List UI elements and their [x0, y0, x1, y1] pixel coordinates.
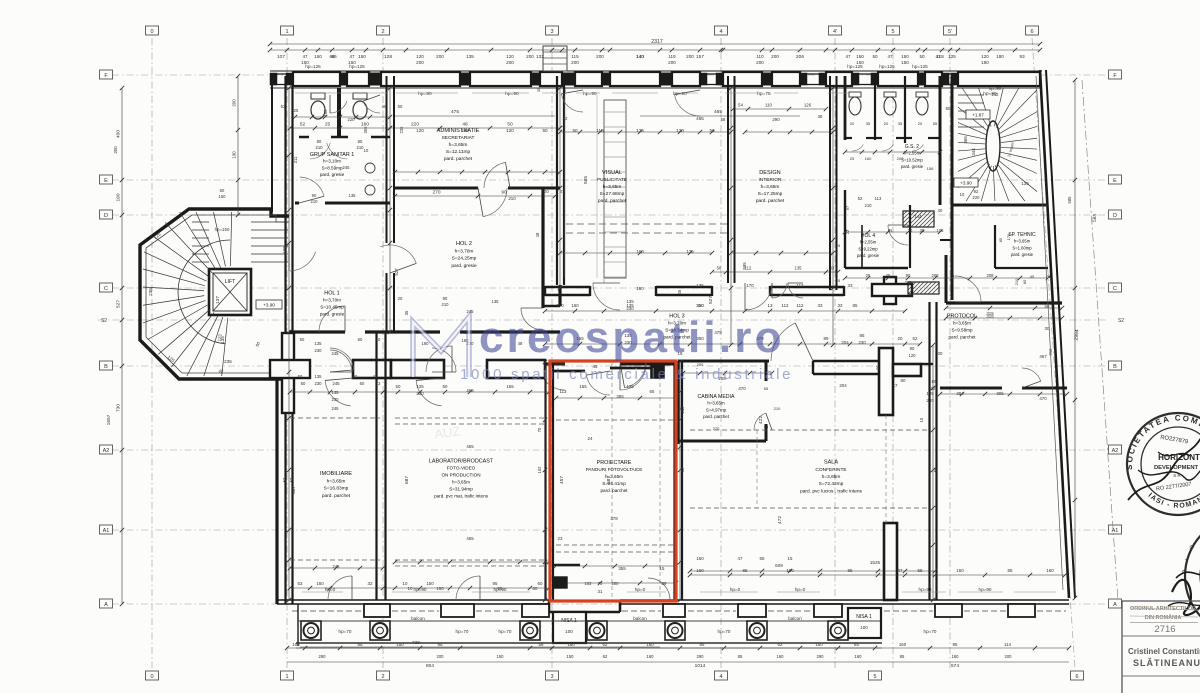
svg-text:h=3,70m: h=3,70m	[323, 298, 341, 303]
svg-text:hp=125: hp=125	[879, 64, 895, 69]
svg-text:120: 120	[981, 54, 989, 59]
svg-text:52: 52	[913, 336, 918, 341]
svg-text:90: 90	[443, 296, 448, 301]
svg-text:206: 206	[796, 54, 804, 60]
svg-text:235: 235	[224, 359, 232, 364]
svg-text:135: 135	[696, 283, 704, 288]
svg-text:95: 95	[438, 642, 443, 647]
svg-text:50: 50	[542, 128, 548, 133]
svg-text:55: 55	[933, 467, 938, 472]
svg-text:25: 25	[836, 243, 841, 248]
svg-text:160: 160	[777, 654, 785, 659]
svg-text:115: 115	[668, 54, 676, 59]
svg-text:S=4,97mp: S=4,97mp	[706, 407, 727, 412]
svg-text:S2: S2	[1118, 318, 1124, 324]
svg-text:SP. TEHNIC: SP. TEHNIC	[1008, 232, 1036, 238]
svg-text:hp=0: hp=0	[635, 587, 646, 592]
svg-text:135: 135	[332, 390, 340, 395]
svg-text:180: 180	[981, 60, 989, 65]
svg-text:179: 179	[1006, 233, 1011, 240]
svg-text:200: 200	[526, 54, 534, 59]
svg-text:200: 200	[571, 60, 579, 65]
svg-text:pard. parchet: pard. parchet	[756, 198, 785, 204]
svg-text:h=3,65m: h=3,65m	[953, 321, 971, 326]
svg-text:85: 85	[854, 642, 859, 647]
svg-text:25: 25	[325, 122, 331, 128]
svg-text:47: 47	[302, 54, 308, 59]
svg-text:150: 150	[396, 642, 404, 647]
svg-text:47: 47	[845, 54, 851, 59]
svg-text:150: 150	[497, 654, 505, 659]
svg-text:92: 92	[974, 189, 979, 194]
svg-text:55: 55	[760, 556, 765, 561]
svg-text:h=3,65m: h=3,65m	[761, 184, 780, 190]
svg-text:6: 6	[1030, 29, 1033, 35]
svg-text:10: 10	[960, 192, 965, 197]
svg-text:160: 160	[952, 654, 960, 659]
svg-text:25: 25	[836, 278, 841, 283]
svg-text:210: 210	[865, 203, 873, 208]
svg-text:35: 35	[866, 121, 871, 126]
svg-text:pard. pvc mat, trafic intens: pard. pvc mat, trafic intens	[434, 494, 489, 499]
svg-text:PROIECTARE: PROIECTARE	[597, 460, 632, 466]
svg-text:112: 112	[782, 303, 790, 308]
svg-text:80: 80	[901, 378, 906, 383]
svg-text:160: 160	[956, 568, 964, 573]
svg-text:128: 128	[384, 54, 392, 60]
svg-text:112: 112	[797, 303, 805, 308]
svg-text:150: 150	[348, 60, 356, 65]
svg-text:SLĂTINEANU: SLĂTINEANU	[1133, 658, 1200, 668]
svg-text:65: 65	[764, 386, 769, 391]
svg-text:160: 160	[646, 642, 654, 647]
svg-text:h=3,65m: h=3,65m	[452, 480, 470, 485]
svg-text:157: 157	[696, 54, 704, 60]
svg-text:48: 48	[382, 104, 387, 109]
svg-text:1657: 1657	[106, 414, 112, 425]
svg-text:210: 210	[316, 145, 324, 150]
svg-text:804: 804	[426, 663, 434, 669]
svg-text:465: 465	[714, 109, 722, 115]
svg-text:135: 135	[466, 54, 474, 59]
svg-text:1525: 1525	[870, 560, 881, 565]
svg-text:290: 290	[817, 654, 825, 659]
svg-text:S=16.83mp: S=16.83mp	[324, 486, 349, 492]
svg-text:210: 210	[311, 199, 319, 204]
svg-text:60: 60	[358, 337, 363, 342]
svg-text:h=3,65m: h=3,65m	[327, 478, 346, 484]
svg-text:200: 200	[897, 156, 904, 161]
svg-text:60: 60	[533, 586, 538, 591]
svg-text:355: 355	[618, 566, 626, 571]
svg-text:48: 48	[462, 122, 468, 128]
svg-text:54: 54	[738, 103, 743, 108]
svg-text:33: 33	[818, 303, 823, 308]
svg-text:2994: 2994	[1074, 329, 1081, 341]
svg-text:S=9,22mp: S=9,22mp	[858, 246, 878, 251]
svg-text:A1: A1	[1112, 528, 1119, 534]
svg-text:Cristinel Constantin: Cristinel Constantin	[1128, 647, 1200, 656]
svg-text:100: 100	[860, 625, 868, 630]
svg-text:35: 35	[536, 87, 541, 92]
svg-text:58: 58	[539, 642, 544, 647]
svg-text:115: 115	[571, 54, 579, 59]
svg-text:472: 472	[777, 516, 783, 524]
svg-text:50: 50	[396, 384, 401, 389]
svg-text:hp=90: hp=90	[418, 91, 432, 97]
svg-text:160: 160	[855, 654, 863, 659]
svg-text:200: 200	[416, 60, 424, 65]
svg-text:1000 spatii comerciale & indus: 1000 spatii comerciale & industriale	[460, 366, 793, 383]
svg-text:23: 23	[558, 536, 563, 541]
svg-text:60: 60	[538, 581, 543, 586]
svg-text:40: 40	[376, 337, 381, 342]
svg-text:A2: A2	[1112, 448, 1119, 454]
svg-text:50: 50	[872, 54, 878, 59]
svg-text:150: 150	[901, 60, 909, 65]
svg-text:200: 200	[113, 146, 118, 154]
svg-text:210: 210	[442, 302, 450, 307]
svg-text:DEVELOPMENT: DEVELOPMENT	[1154, 465, 1199, 471]
svg-text:47: 47	[893, 383, 898, 388]
svg-text:20: 20	[918, 121, 923, 126]
svg-text:120: 120	[506, 54, 514, 59]
svg-text:85: 85	[738, 654, 743, 659]
svg-text:hp=70: hp=70	[456, 629, 469, 634]
svg-text:35: 35	[898, 121, 903, 126]
svg-text:85: 85	[853, 303, 858, 308]
svg-text:200: 200	[686, 54, 694, 59]
svg-text:ADMINISTRATIE: ADMINISTRATIE	[437, 128, 480, 134]
svg-text:200: 200	[771, 54, 779, 59]
svg-text:150: 150	[856, 54, 864, 59]
svg-text:230: 230	[315, 348, 323, 353]
svg-text:33: 33	[830, 266, 835, 271]
svg-text:FOTO-VIDEO: FOTO-VIDEO	[447, 466, 476, 471]
svg-text:135: 135	[492, 299, 500, 304]
svg-text:85: 85	[900, 654, 905, 659]
svg-text:hp=90: hp=90	[505, 91, 519, 97]
svg-text:h=3,65m: h=3,65m	[449, 142, 468, 148]
svg-text:687: 687	[606, 476, 612, 484]
svg-text:467: 467	[1039, 354, 1047, 359]
svg-text:730: 730	[116, 404, 122, 412]
svg-text:112: 112	[797, 283, 805, 288]
svg-text:220: 220	[411, 122, 419, 128]
svg-text:190: 190	[232, 151, 237, 159]
svg-text:60: 60	[360, 381, 365, 386]
svg-text:160: 160	[556, 303, 564, 308]
svg-text:VISUAL: VISUAL	[602, 170, 622, 176]
svg-text:h=3,65m: h=3,65m	[1014, 239, 1031, 244]
svg-text:126: 126	[804, 103, 812, 108]
svg-text:200: 200	[437, 654, 445, 659]
svg-text:80: 80	[317, 139, 322, 144]
svg-text:350: 350	[696, 303, 704, 308]
svg-text:585: 585	[1067, 196, 1072, 204]
svg-text:HOL 1: HOL 1	[324, 291, 339, 297]
svg-text:pard. gresie: pard. gresie	[320, 312, 345, 317]
svg-text:S=72.42mp: S=72.42mp	[819, 481, 844, 487]
svg-text:balcon: balcon	[411, 616, 425, 621]
svg-text:ON PRODUCTION: ON PRODUCTION	[441, 473, 480, 478]
svg-text:60: 60	[220, 188, 225, 193]
svg-text:160: 160	[696, 568, 704, 573]
svg-text:125: 125	[948, 54, 956, 59]
svg-text:160: 160	[422, 341, 430, 346]
svg-text:135: 135	[626, 384, 634, 389]
svg-text:3: 3	[550, 674, 553, 680]
svg-text:D: D	[1113, 213, 1117, 219]
svg-text:113: 113	[560, 389, 568, 394]
svg-text:DIN ROMÂNIA: DIN ROMÂNIA	[1145, 614, 1182, 621]
svg-text:52: 52	[289, 477, 294, 482]
svg-text:80: 80	[1022, 279, 1027, 284]
svg-text:44: 44	[875, 365, 880, 370]
svg-text:2: 2	[381, 674, 384, 680]
svg-text:212: 212	[992, 92, 1000, 97]
svg-text:4: 4	[719, 29, 722, 35]
svg-text:112: 112	[745, 266, 752, 271]
svg-text:43: 43	[376, 381, 381, 386]
svg-text:GRUP SANITAR 1: GRUP SANITAR 1	[310, 152, 354, 158]
svg-text:305: 305	[996, 391, 1004, 396]
svg-text:113: 113	[875, 196, 882, 201]
svg-text:160: 160	[636, 286, 644, 291]
svg-text:50: 50	[300, 337, 305, 342]
svg-text:290: 290	[772, 117, 780, 122]
svg-text:60: 60	[443, 384, 448, 389]
svg-text:3: 3	[550, 29, 553, 35]
svg-text:HOL 4: HOL 4	[861, 233, 875, 239]
svg-text:pard. gresie: pard. gresie	[901, 164, 924, 169]
svg-text:120: 120	[416, 54, 424, 59]
svg-text:+1.87: +1.87	[972, 113, 984, 118]
svg-text:PUBLICITATE: PUBLICITATE	[597, 177, 627, 183]
svg-text:5: 5	[873, 674, 876, 680]
svg-text:h=3,70m: h=3,70m	[455, 248, 474, 254]
svg-text:PROTOCOL: PROTOCOL	[947, 314, 977, 320]
svg-text:204: 204	[839, 383, 847, 388]
svg-text:585: 585	[583, 176, 589, 184]
svg-text:4': 4'	[833, 29, 837, 35]
svg-text:102: 102	[585, 581, 593, 586]
svg-text:hp=75: hp=75	[757, 91, 771, 97]
svg-text:344: 344	[971, 148, 976, 156]
svg-text:107: 107	[277, 54, 285, 60]
svg-text:h=3,65m: h=3,65m	[822, 474, 841, 480]
svg-text:B: B	[104, 364, 108, 370]
svg-text:S=27.68mp: S=27.68mp	[600, 191, 625, 197]
svg-text:50: 50	[398, 104, 403, 109]
svg-text:95: 95	[953, 642, 958, 647]
svg-text:180: 180	[996, 54, 1004, 59]
svg-text:20: 20	[884, 121, 889, 126]
svg-text:55: 55	[933, 121, 938, 126]
svg-text:45: 45	[764, 424, 769, 429]
svg-text:62: 62	[778, 642, 783, 647]
svg-text:200: 200	[436, 54, 444, 59]
svg-text:pard. parchet: pard. parchet	[322, 493, 351, 499]
svg-text:32: 32	[368, 581, 373, 586]
svg-text:89: 89	[824, 336, 829, 341]
svg-text:150: 150	[856, 60, 864, 65]
svg-text:144: 144	[915, 214, 923, 219]
svg-text:pard. gresie: pard. gresie	[451, 263, 477, 269]
svg-text:80: 80	[358, 139, 363, 144]
svg-text:5': 5'	[948, 29, 952, 35]
svg-text:15: 15	[919, 417, 924, 422]
svg-text:110: 110	[756, 54, 764, 59]
svg-text:200: 200	[612, 581, 620, 586]
svg-text:62: 62	[603, 642, 608, 647]
svg-text:160: 160	[815, 642, 823, 647]
svg-text:hp=0: hp=0	[730, 587, 741, 592]
svg-text:475: 475	[451, 109, 459, 115]
svg-text:HOL 2: HOL 2	[456, 241, 472, 247]
svg-text:39: 39	[662, 581, 667, 586]
svg-text:140: 140	[636, 54, 644, 59]
svg-text:155: 155	[579, 384, 587, 389]
svg-text:52: 52	[282, 477, 287, 482]
svg-text:47: 47	[738, 556, 743, 561]
svg-text:170: 170	[746, 283, 754, 288]
svg-text:4: 4	[719, 674, 722, 680]
svg-text:465: 465	[466, 536, 474, 541]
svg-text:24: 24	[588, 436, 593, 441]
svg-text:30: 30	[938, 351, 943, 356]
svg-text:50: 50	[301, 381, 306, 386]
svg-text:210: 210	[508, 196, 516, 201]
svg-text:58: 58	[717, 266, 722, 271]
svg-text:15: 15	[788, 556, 793, 561]
svg-text:32: 32	[563, 116, 568, 121]
svg-text:85: 85	[358, 642, 363, 647]
svg-text:SECRETARIAT: SECRETARIAT	[442, 135, 475, 141]
svg-text:245: 245	[332, 351, 340, 356]
svg-text:balcon: balcon	[788, 616, 802, 621]
svg-text:156: 156	[927, 166, 934, 171]
svg-text:0: 0	[150, 674, 153, 680]
svg-text:70: 70	[598, 581, 603, 586]
svg-text:137: 137	[215, 296, 220, 304]
svg-text:creospatii.ro: creospatii.ro	[479, 313, 785, 362]
svg-text:120: 120	[416, 128, 424, 133]
svg-text:150: 150	[426, 581, 434, 586]
svg-text:6: 6	[1075, 674, 1078, 680]
svg-text:200: 200	[232, 99, 237, 107]
svg-text:pard. gresie: pard. gresie	[320, 172, 345, 177]
svg-text:135: 135	[349, 193, 357, 198]
svg-text:IMOBILIARE: IMOBILIARE	[320, 471, 352, 477]
svg-text:S=1.60mp: S=1.60mp	[1012, 245, 1032, 250]
svg-text:SALA: SALA	[824, 460, 839, 466]
svg-text:13: 13	[768, 303, 773, 308]
svg-text:S=10.52mp: S=10.52mp	[901, 157, 923, 162]
svg-text:245: 245	[343, 165, 351, 170]
svg-text:36: 36	[404, 310, 409, 315]
svg-text:527: 527	[116, 300, 122, 308]
svg-text:20: 20	[398, 296, 403, 301]
svg-text:85: 85	[1008, 568, 1013, 573]
svg-text:135: 135	[315, 341, 323, 346]
svg-text:47: 47	[560, 189, 565, 194]
svg-text:NISA 1: NISA 1	[856, 614, 872, 620]
svg-text:2716: 2716	[1154, 624, 1175, 635]
svg-text:S=12.11mp: S=12.11mp	[446, 149, 471, 155]
svg-text:pard. parchet: pard. parchet	[598, 198, 627, 204]
svg-text:200: 200	[756, 60, 764, 65]
svg-text:hp=70: hp=70	[718, 629, 731, 634]
svg-text:210: 210	[774, 406, 781, 411]
svg-text:G.S. 2: G.S. 2	[905, 144, 919, 150]
svg-text:165: 165	[506, 384, 514, 389]
svg-text:210: 210	[1014, 278, 1019, 285]
svg-text:190: 190	[116, 193, 122, 201]
svg-text:422: 422	[758, 416, 764, 424]
svg-text:208: 208	[987, 273, 995, 278]
svg-text:47: 47	[898, 568, 903, 573]
svg-text:INTERIOR: INTERIOR	[759, 177, 782, 183]
svg-text:609: 609	[775, 563, 783, 568]
svg-text:60: 60	[353, 374, 358, 379]
svg-text:150: 150	[314, 54, 322, 59]
svg-text:40: 40	[938, 208, 943, 213]
svg-text:hp=90: hp=90	[583, 91, 597, 97]
svg-text:47: 47	[887, 54, 893, 59]
svg-text:150: 150	[358, 54, 366, 59]
svg-text:0: 0	[150, 29, 153, 35]
svg-text:527: 527	[708, 296, 714, 304]
svg-text:135: 135	[461, 128, 469, 133]
svg-text:20: 20	[898, 336, 903, 341]
svg-text:pard. parchet: pard. parchet	[948, 335, 976, 340]
svg-text:31: 31	[598, 589, 603, 594]
svg-text:pard. gresie: pard. gresie	[1011, 252, 1034, 257]
svg-text:10: 10	[408, 586, 413, 591]
svg-text:DESIGN: DESIGN	[759, 170, 780, 176]
svg-text:95: 95	[498, 586, 503, 591]
svg-text:311: 311	[293, 156, 298, 163]
svg-text:1: 1	[285, 674, 288, 680]
svg-text:150: 150	[567, 654, 575, 659]
svg-text:CABINA MEDIA: CABINA MEDIA	[698, 394, 735, 400]
svg-text:132: 132	[536, 54, 544, 60]
svg-text:62: 62	[603, 654, 608, 659]
svg-text:46: 46	[677, 289, 682, 294]
svg-text:245: 245	[332, 406, 340, 411]
svg-text:235: 235	[399, 126, 404, 134]
svg-text:52: 52	[858, 196, 863, 201]
svg-text:2: 2	[381, 29, 384, 35]
svg-text:67: 67	[845, 205, 850, 210]
svg-text:balcon: balcon	[633, 616, 647, 621]
svg-text:160: 160	[696, 556, 704, 561]
svg-text:50: 50	[507, 122, 513, 128]
svg-text:53: 53	[298, 581, 303, 586]
svg-text:85: 85	[932, 379, 937, 384]
svg-text:400: 400	[116, 130, 122, 138]
svg-text:687: 687	[291, 486, 297, 494]
svg-text:90: 90	[501, 190, 507, 196]
svg-text:110: 110	[765, 103, 773, 108]
svg-text:93: 93	[1019, 54, 1025, 60]
svg-text:E: E	[104, 178, 108, 184]
svg-text:85: 85	[743, 568, 748, 573]
svg-text:220: 220	[973, 195, 981, 200]
svg-text:470: 470	[738, 386, 746, 391]
svg-text:20: 20	[850, 121, 855, 126]
